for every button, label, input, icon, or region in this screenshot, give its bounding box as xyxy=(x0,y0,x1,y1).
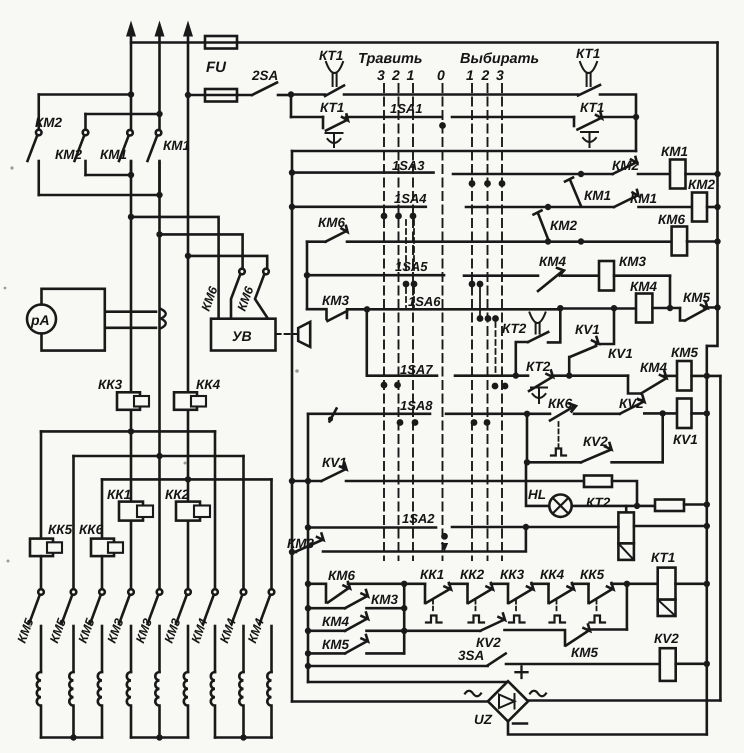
motor contact КМ5 #3 xyxy=(90,589,105,624)
1SA8 cam tick xyxy=(328,409,337,422)
current transformer coupling on L2 xyxy=(161,309,166,328)
svg-text:КТ2: КТ2 xyxy=(502,321,527,336)
svg-text:1SA1: 1SA1 xyxy=(390,101,423,116)
coil KM1 xyxy=(670,160,718,189)
motor contact КМ5 #1 xyxy=(29,589,44,624)
rail2 (inner left rail) xyxy=(307,414,310,682)
thermal contact KK1 xyxy=(425,583,468,623)
contact KM1 on rung5 xyxy=(614,190,692,207)
rung 3 feeder wire xyxy=(292,150,636,153)
svg-text:КМ4: КМ4 xyxy=(322,614,350,629)
rung 4 (1SA3) left xyxy=(292,171,434,174)
svg-text:КК6: КК6 xyxy=(79,522,104,537)
svg-text:КМ3: КМ3 xyxy=(287,536,315,551)
svg-text:КТ1: КТ1 xyxy=(319,48,343,63)
contact KM5 bottom xyxy=(566,584,627,646)
coil KV2 xyxy=(660,648,710,681)
svg-text:HL: HL xyxy=(528,487,546,502)
heater KK6 tail xyxy=(101,556,104,589)
brake rectifier box YB xyxy=(211,319,276,351)
svg-text:pA: pA xyxy=(30,312,50,328)
wire KT2 down to rung9 xyxy=(516,342,528,376)
svg-text:1: 1 xyxy=(466,67,474,83)
top supply wire to right rail xyxy=(131,41,718,44)
svg-text:1SA3: 1SA3 xyxy=(392,158,425,173)
rung 5 right xyxy=(466,206,614,209)
stator winding 6 xyxy=(184,626,188,738)
rung 4 right xyxy=(453,173,613,176)
svg-text:КМ1: КМ1 xyxy=(163,138,190,153)
contact KK6 NC on rung10 xyxy=(550,404,620,421)
rung 3SA xyxy=(308,654,660,667)
motor contact КМ3 #3 xyxy=(176,589,191,624)
rung 5 (1SA4) left xyxy=(292,206,426,209)
contact KM6 b xyxy=(255,269,269,319)
rung 2 wire right xyxy=(601,116,636,119)
contact KM2 (b) xyxy=(75,114,89,175)
svg-text:КТ1: КТ1 xyxy=(651,550,675,565)
minus sign xyxy=(513,722,527,725)
contact KM2 (a) xyxy=(28,95,42,196)
svg-text:КМ4: КМ4 xyxy=(630,279,658,294)
contact KM3 on rung8 xyxy=(328,309,368,321)
distribution line C (bottom) xyxy=(102,478,272,481)
rung 9 wire mid xyxy=(455,374,528,377)
svg-text:3: 3 xyxy=(377,67,385,83)
thermal heater KK1 on L1 xyxy=(119,502,153,521)
line from KM2#2 top to L2 xyxy=(86,113,160,116)
common line to KV2 contact xyxy=(404,629,480,632)
contact KV2 bottom xyxy=(480,614,565,646)
svg-text:КV1: КV1 xyxy=(575,322,600,337)
UZ minus output wire xyxy=(508,721,707,734)
resistor R2 xyxy=(655,500,710,512)
svg-text:2SA: 2SA xyxy=(251,68,278,83)
svg-text:КМ5: КМ5 xyxy=(683,290,711,305)
rung 2 wire mid xyxy=(346,116,442,119)
svg-text:КТ1: КТ1 xyxy=(320,100,344,115)
svg-text:КК2: КК2 xyxy=(165,487,190,502)
dash link YB to brake xyxy=(276,333,296,335)
coil KM5 xyxy=(677,361,720,391)
svg-text:1SA8: 1SA8 xyxy=(400,398,433,413)
left rail (control) xyxy=(291,151,294,702)
contact KM2 vertical (rung5 to rung6) xyxy=(534,211,549,240)
svg-text:КТ1: КТ1 xyxy=(576,46,600,61)
svg-text:КК3: КК3 xyxy=(98,377,123,392)
right DC rail xyxy=(705,346,708,735)
svg-text:КМ1: КМ1 xyxy=(100,147,127,162)
rung 12 (KV1 / resistor) xyxy=(292,463,584,481)
svg-text:КV1: КV1 xyxy=(322,455,347,470)
coil KM6 xyxy=(672,227,718,256)
UZ ac wire right xyxy=(528,699,720,702)
contact KM2 on rung4 xyxy=(613,157,670,174)
coil KT2 with delay box xyxy=(618,506,710,560)
winding star bus 1 xyxy=(41,734,102,740)
rung 6 (KM6) xyxy=(307,226,672,245)
rectifier UZ diamond xyxy=(488,681,528,721)
rung 7 wire mid xyxy=(464,274,538,277)
svg-text:1SA6: 1SA6 xyxy=(408,294,441,309)
rung 10 wire mid xyxy=(446,412,550,415)
svg-text:КМ1: КМ1 xyxy=(661,144,688,159)
rung 11 KV2 self-hold xyxy=(524,413,663,465)
KT1 NC delayed contact (umbrella) right xyxy=(574,113,602,148)
brake horn symbol xyxy=(298,322,310,347)
lamp HL xyxy=(549,495,571,517)
svg-text:КМ3: КМ3 xyxy=(371,592,399,607)
svg-text:КМ2: КМ2 xyxy=(55,147,83,162)
KT2 clock contact bridge (rung8 to rung9) xyxy=(528,308,560,342)
thermal heater KK4 on L3 xyxy=(174,392,206,410)
svg-text:КК4: КК4 xyxy=(196,377,221,392)
svg-text:КК4: КК4 xyxy=(540,567,565,582)
heater KK5 tail xyxy=(40,556,43,589)
stator winding 3 xyxy=(98,626,102,738)
svg-text:КМ2: КМ2 xyxy=(612,158,640,173)
svg-text:КМ5: КМ5 xyxy=(322,637,350,652)
thermal contact KK4 xyxy=(549,583,589,623)
svg-text:КК1: КК1 xyxy=(107,487,131,502)
coil KT1 with delay box xyxy=(658,568,710,616)
contact KM5 parallel xyxy=(308,635,404,653)
svg-text:Травить: Травить xyxy=(358,51,423,67)
svg-text:КV2: КV2 xyxy=(654,631,679,646)
lamp HL drop wire xyxy=(526,462,549,506)
svg-text:КV1: КV1 xyxy=(673,432,698,447)
svg-text:1: 1 xyxy=(407,67,415,83)
contact KM6 a xyxy=(231,269,245,319)
contactor block: line from KM2 top to L1 xyxy=(39,93,131,96)
svg-text:КV1: КV1 xyxy=(608,346,633,361)
time relay contact KT1 b (clock) xyxy=(578,62,600,96)
svg-text:КМ2: КМ2 xyxy=(688,177,716,192)
svg-text:1SA2: 1SA2 xyxy=(402,511,435,526)
drop B left xyxy=(72,456,75,589)
drop A right xyxy=(214,431,217,589)
controller position dashed columns xyxy=(384,84,502,560)
svg-text:КК3: КК3 xyxy=(500,567,525,582)
svg-text:FU: FU xyxy=(206,59,227,76)
stator winding 5 xyxy=(155,626,159,738)
contact KM1 vertical (rung4 to rung5) xyxy=(565,178,581,207)
rung 10 (1SA8) xyxy=(308,412,430,415)
stator winding 2 xyxy=(69,626,73,738)
rung 1 wire xyxy=(291,93,325,96)
wire L2 to KM6 contact a xyxy=(160,234,243,268)
svg-text:КМ3: КМ3 xyxy=(322,293,350,308)
stub rail rung6-rung8 xyxy=(306,242,309,310)
svg-text:КМ6: КМ6 xyxy=(318,215,346,230)
rung 8 (1SA6) left corner xyxy=(307,309,327,319)
motor contact КМ5 #2 xyxy=(62,589,77,624)
svg-text:1SA7: 1SA7 xyxy=(400,362,433,377)
coil KM4 xyxy=(636,294,680,323)
svg-text:КТ1: КТ1 xyxy=(580,100,604,115)
vertical rung7 right to rung8 xyxy=(669,276,672,308)
contact KV2 on rung10 xyxy=(620,396,677,417)
right rail upper xyxy=(707,43,718,346)
motor contact КМ4 #2 xyxy=(232,589,247,624)
KK6 manual release xyxy=(551,422,566,456)
svg-text:КМ5: КМ5 xyxy=(571,645,599,660)
cam tie line xyxy=(479,284,481,319)
contact KM4 parallel xyxy=(308,613,404,631)
pA loop wiring xyxy=(42,289,157,351)
svg-text:Выбирать: Выбирать xyxy=(460,51,539,67)
rung 14 (KM3 hold) xyxy=(292,527,526,552)
svg-text:КТ2: КТ2 xyxy=(526,359,551,374)
svg-text:1SA4: 1SA4 xyxy=(394,191,427,206)
svg-text:КМ4: КМ4 xyxy=(539,254,567,269)
stator winding 4 xyxy=(127,626,131,738)
stator winding 8 xyxy=(239,626,243,738)
svg-text:КМ4: КМ4 xyxy=(640,360,668,375)
position digits xyxy=(377,67,504,83)
winding star bus 2 xyxy=(131,734,188,740)
cam dashed tails xyxy=(406,220,496,374)
stator winding 9 xyxy=(267,626,271,738)
svg-text:КТ2: КТ2 xyxy=(586,495,611,510)
scan specks xyxy=(4,166,299,627)
svg-text:КМ1: КМ1 xyxy=(584,188,611,203)
contact KM4 NC on rung7 xyxy=(538,268,599,291)
stator winding 1 xyxy=(37,626,41,738)
motor contact КМ4 #1 xyxy=(203,589,218,624)
svg-text:1SA5: 1SA5 xyxy=(395,259,428,274)
rung 2 wire left xyxy=(291,116,323,119)
thermal heater KK6 on drop C xyxy=(91,539,123,557)
control feed wire from L3 xyxy=(188,94,252,97)
svg-text:КМ1: КМ1 xyxy=(630,191,657,206)
KT2 NC delayed contact on rung9 xyxy=(529,371,628,404)
phase line L1 xyxy=(126,21,136,590)
fuse FU lower xyxy=(205,89,237,102)
svg-text:КМ2: КМ2 xyxy=(550,218,578,233)
cross line KM2b-to-L1 xyxy=(86,174,132,177)
rung 8 wire xyxy=(367,308,560,311)
coil KM3 xyxy=(599,261,670,291)
svg-text:2: 2 xyxy=(391,67,400,83)
right AC return drop to UZ xyxy=(719,376,722,701)
stator winding 7 xyxy=(211,626,215,738)
svg-text:КК5: КК5 xyxy=(48,522,73,537)
distribution line B (middle) xyxy=(74,455,244,458)
thermal contact KK3 xyxy=(508,583,549,623)
left drop rung1 to rung2 xyxy=(290,95,293,118)
parallel contacts common vertical xyxy=(403,584,406,654)
tilde marks xyxy=(465,691,481,697)
rung 1 wire mid xyxy=(344,93,578,96)
motor contact КМ3 #2 xyxy=(148,589,163,624)
svg-text:0: 0 xyxy=(437,67,445,83)
fuse FU upper xyxy=(205,36,237,49)
time relay contact KT1 a (clock) xyxy=(325,62,344,96)
minus supply line from rail1 xyxy=(292,700,488,703)
phase line L3 xyxy=(183,21,193,590)
thermal contact KK5 xyxy=(589,581,658,623)
motor contact КМ3 #1 xyxy=(119,589,134,624)
rung 13 (1SA2) xyxy=(308,526,436,529)
svg-text:КV2: КV2 xyxy=(583,434,608,449)
svg-text:УВ: УВ xyxy=(232,328,252,344)
drop C left xyxy=(101,479,104,538)
distribution line A (top) xyxy=(41,430,215,433)
contact KM1 (b) on L2 xyxy=(148,130,162,195)
thermal contact KK2 xyxy=(468,583,509,623)
drop B right xyxy=(242,456,245,589)
plus supply line from rail2 xyxy=(308,681,508,684)
lamp to resistor R2 xyxy=(572,505,655,508)
winding star bus 3 xyxy=(215,734,272,740)
thermal heater KK3 on L1 xyxy=(117,392,149,410)
contact KM3 parallel xyxy=(308,590,404,608)
svg-text:UZ: UZ xyxy=(474,712,493,727)
phase line L2 xyxy=(155,21,165,590)
rung 1 wire right + corner down xyxy=(600,95,636,152)
contact KM5 on rung8 xyxy=(680,302,718,321)
svg-text:КМ3: КМ3 xyxy=(619,254,647,269)
thermal heater KK2 on L3 xyxy=(176,502,210,521)
pA meter circle xyxy=(27,305,56,334)
bottom line KM2a-to-L2 xyxy=(39,194,160,197)
KT1 NC delayed contact (umbrella) left xyxy=(323,115,348,148)
svg-text:КК6: КК6 xyxy=(548,396,573,411)
svg-text:КМ2: КМ2 xyxy=(35,115,63,130)
thermal heater KK5 on drop A xyxy=(30,539,62,557)
coil KM2 xyxy=(692,193,718,222)
drop A left xyxy=(40,431,43,538)
svg-text:КК2: КК2 xyxy=(460,567,485,582)
coil KV1 xyxy=(677,399,710,429)
svg-text:КК5: КК5 xyxy=(580,567,605,582)
sawtooth rung: KM6 contact xyxy=(308,581,425,603)
drop C right xyxy=(270,479,273,589)
cam closure dots xyxy=(381,122,509,540)
wire L3 to KM6 contact b xyxy=(188,256,267,269)
svg-text:2: 2 xyxy=(481,67,490,83)
contact KM4 on rung9 xyxy=(628,372,677,394)
switch 2SA xyxy=(252,83,291,96)
plus sign xyxy=(516,667,528,679)
vertical rung8-dot to rung9 left xyxy=(365,309,368,375)
KV1 contact bridge (rung8 to rung9) xyxy=(569,308,614,375)
svg-text:КК1: КК1 xyxy=(420,567,444,582)
rung 7 (1SA5) wire left xyxy=(307,274,444,277)
svg-text:3: 3 xyxy=(496,67,504,83)
svg-text:КМ6: КМ6 xyxy=(658,212,686,227)
svg-text:КМ6: КМ6 xyxy=(328,568,356,583)
rung 9 (1SA7) wire left xyxy=(367,374,437,377)
svg-text:КV2: КV2 xyxy=(619,396,644,411)
svg-text:КМ5: КМ5 xyxy=(671,345,699,360)
svg-text:3SA: 3SA xyxy=(458,648,484,663)
zero column return arrow xyxy=(441,543,448,552)
resistor R1 xyxy=(584,476,637,506)
wire L1 to YB box xyxy=(131,217,219,319)
motor contact КМ4 #3 xyxy=(260,589,275,624)
contact KM1 (a) on L1 xyxy=(119,130,133,175)
